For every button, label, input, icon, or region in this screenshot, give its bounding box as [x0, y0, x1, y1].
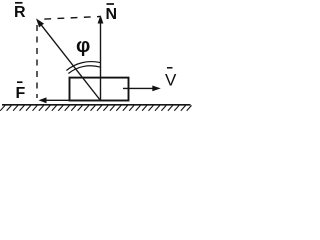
svg-text:R: R	[14, 4, 26, 21]
vector N (line)	[100, 20, 102, 101]
svg-text:N: N	[106, 6, 118, 23]
vector F (line)	[44, 99, 101, 101]
angle arc outer	[66, 62, 100, 71]
angle arc inner	[68, 66, 100, 74]
vector R (arrowhead)	[36, 18, 44, 27]
label N overbar	[107, 3, 115, 5]
dashed vertical line	[36, 25, 38, 98]
svg-text:φ: φ	[76, 35, 90, 57]
vector N (arrowhead)	[98, 15, 104, 24]
label V overbar	[167, 67, 173, 69]
vector F (arrowhead)	[39, 97, 47, 103]
vector V (arrowhead)	[152, 86, 161, 92]
ground line	[2, 104, 191, 106]
ground hatching	[0, 105, 191, 110]
vector V (line)	[123, 87, 155, 89]
svg-text:V: V	[165, 71, 177, 90]
svg-text:F: F	[16, 85, 26, 102]
label F overbar	[17, 81, 23, 83]
vector R (line)	[41, 24, 101, 100]
dashed horizontal line	[44, 17, 100, 20]
block	[70, 78, 129, 101]
label R overbar	[15, 2, 23, 4]
